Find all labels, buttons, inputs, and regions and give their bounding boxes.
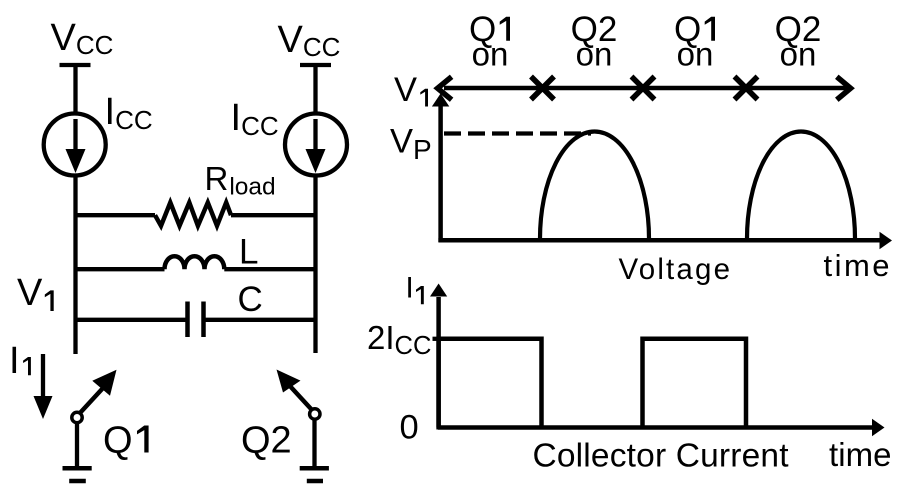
switch Q1 arrowhead [92, 370, 116, 396]
svg-text:Q: Q [103, 420, 133, 462]
timing X mark 1 [531, 77, 554, 100]
current source U1 arrow left [73, 119, 77, 150]
svg-text:on: on [677, 36, 714, 73]
timing arrow right head [837, 77, 851, 100]
timing arrow left head [438, 77, 452, 100]
svg-text:VCC: VCC [278, 19, 341, 62]
ground Q2 [300, 466, 329, 471]
svg-text:time: time [824, 248, 890, 283]
wire VCC right to current source [313, 63, 317, 114]
switch Q1 pivot [72, 412, 82, 422]
ground Q1 [63, 466, 92, 471]
voltage hump 1 [540, 132, 649, 239]
svg-text:time: time [829, 436, 892, 473]
timing X mark 2 [632, 77, 655, 100]
wire resistor left lead [76, 213, 156, 217]
svg-text:V: V [394, 71, 417, 109]
power rail VCC left bar [60, 63, 91, 67]
capacitor C right plate [201, 302, 206, 338]
current I1 arrow [41, 354, 45, 398]
wire Q2 pivot to ground [312, 420, 316, 467]
svg-text:L: L [239, 233, 258, 272]
svg-text:VCC: VCC [51, 17, 114, 60]
svg-text:Rload: Rload [205, 160, 276, 201]
voltage VP dashed level line [444, 131, 591, 135]
current y-axis [436, 297, 441, 430]
wire resistor right lead [231, 213, 316, 217]
switch Q2 pivot [310, 409, 320, 419]
svg-text:on: on [780, 36, 817, 73]
timing double arrow line [444, 86, 847, 91]
inductor L humps [165, 256, 225, 269]
wire Q1 pivot to ground [75, 424, 79, 467]
current pulse 1 [439, 339, 542, 428]
voltage y-axis [438, 106, 443, 242]
wire capacitor right lead [204, 318, 316, 322]
voltage x-axis [438, 238, 881, 243]
current x-axis [438, 425, 873, 430]
current 2ICC tick [433, 337, 445, 341]
capacitor C left plate [185, 302, 190, 338]
current source U2 arrow right [313, 119, 317, 150]
switch Q2 arm [289, 385, 312, 410]
current source U2 circle right [285, 114, 347, 176]
wire VCC left to current source [73, 63, 77, 114]
wire inductor right lead [224, 267, 315, 271]
svg-text:on: on [472, 36, 509, 73]
svg-text:I: I [406, 272, 414, 305]
svg-text:0: 0 [400, 409, 419, 447]
timing X mark 3 [735, 77, 758, 100]
switch Q2 arrowhead [277, 370, 301, 393]
svg-text:ICC: ICC [105, 91, 153, 135]
wire inductor left lead [76, 267, 165, 271]
wire left branch vertical [73, 177, 77, 355]
current pulse 2 [643, 339, 747, 428]
wire right branch vertical [313, 177, 317, 354]
svg-text:Q2: Q2 [241, 420, 292, 462]
svg-text:2ICC: 2ICC [367, 319, 431, 360]
svg-text:ICC: ICC [231, 97, 279, 141]
switch Q1 arm [80, 388, 104, 414]
wire capacitor left lead [76, 318, 188, 322]
svg-text:C: C [238, 280, 263, 319]
svg-text:VP: VP [390, 123, 432, 166]
power rail VCC right bar [300, 63, 331, 67]
svg-text:Collector Current: Collector Current [533, 438, 790, 475]
svg-text:Voltage: Voltage [619, 253, 731, 286]
svg-text:I: I [9, 340, 20, 382]
svg-text:V: V [17, 272, 43, 314]
voltage hump 2 [747, 132, 855, 239]
resistor Rload zigzag [155, 203, 231, 226]
svg-text:on: on [576, 36, 613, 73]
current source U1 circle left [44, 114, 106, 176]
